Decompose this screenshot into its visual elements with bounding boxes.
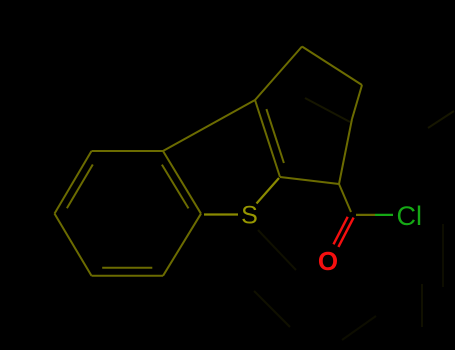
long bond left ring to right ring xyxy=(163,100,255,151)
ghost segment g5 top right xyxy=(428,111,454,128)
bond S to right ring xyxy=(257,178,280,204)
svg-text:S: S xyxy=(241,202,258,230)
ghost segment g6 bottom xyxy=(342,316,376,340)
right ring A-B double bond inner line xyxy=(266,109,284,163)
bond left ring to S xyxy=(204,213,238,215)
ghost vertical g3 bottom right xyxy=(421,284,423,327)
C=O double bond red lines xyxy=(338,218,353,247)
extra faint segment near ring (E1) xyxy=(305,98,350,122)
ghost vertical g4 right xyxy=(442,224,444,287)
ghost segment g1 below S xyxy=(258,230,296,270)
acyl bond ring to carbonyl C xyxy=(339,184,351,212)
right benzene ring xyxy=(255,100,280,177)
left ring aromatic inner lines xyxy=(162,165,189,209)
svg-text:O: O xyxy=(318,246,338,276)
C-Cl bond carbon half xyxy=(356,214,375,216)
ghost segment g2 bottom left of O xyxy=(254,291,290,327)
C-Cl bond chlorine half xyxy=(375,214,393,216)
svg-text:Cl: Cl xyxy=(397,201,423,231)
left benzene ring xyxy=(55,151,92,214)
